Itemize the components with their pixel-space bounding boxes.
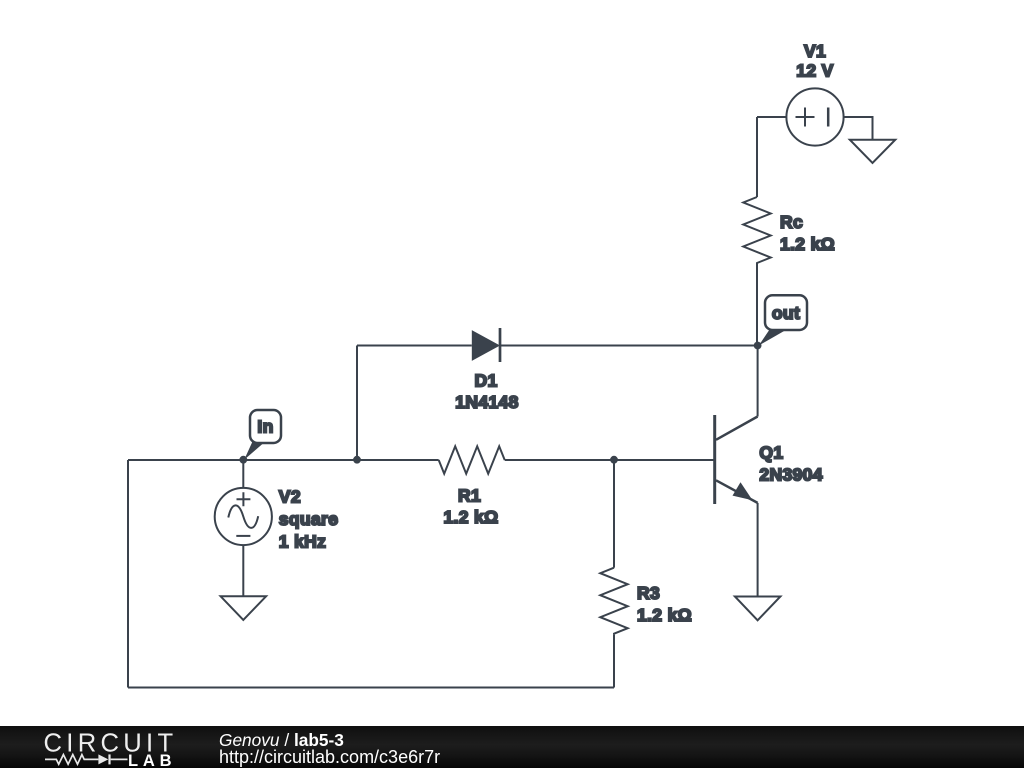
svg-text:2N3904: 2N3904 [759, 465, 822, 485]
resistor R1 [439, 446, 505, 473]
svg-text:D1: D1 [474, 371, 497, 391]
wire vertical from top row to In net [356, 346, 358, 461]
ground (Q1 emitter) [735, 597, 781, 621]
wire main horizontal row right of R1 (base net) [505, 459, 715, 461]
V1 labels [796, 41, 833, 81]
V2 labels [279, 487, 339, 552]
diode D1 [472, 328, 500, 362]
svg-text:In: In [257, 417, 273, 437]
wire emitter vertical [757, 503, 759, 597]
footer title text [219, 732, 440, 766]
wire diode row right segment [500, 345, 758, 347]
wire V2 top lead [242, 460, 244, 488]
node In label [244, 410, 281, 460]
node junction dot at R1/R3 [610, 456, 618, 464]
svg-text:1.2 kΩ: 1.2 kΩ [443, 507, 498, 527]
svg-text:1.2 kΩ: 1.2 kΩ [780, 234, 835, 254]
svg-text:1N4148: 1N4148 [455, 392, 518, 412]
wire Rc top lead [756, 117, 758, 197]
wire V1 right lead [844, 117, 873, 140]
wire collector vertical [757, 346, 759, 417]
transistor Q1 [715, 415, 758, 504]
svg-text:V1: V1 [804, 41, 826, 61]
footer bar [0, 726, 1024, 768]
resistor R3 [600, 568, 627, 635]
svg-text:V2: V2 [279, 487, 301, 507]
ground (V1) [850, 140, 896, 163]
wire main horizontal row left of R1 (node In net) [128, 459, 439, 461]
node junction dot at x357 [353, 456, 361, 464]
wire left rail [127, 460, 129, 688]
Q1 labels [759, 443, 822, 485]
svg-text:1 kHz: 1 kHz [279, 532, 326, 552]
svg-text:LAB: LAB [128, 752, 176, 768]
svg-text:out: out [772, 303, 800, 323]
svg-text:square: square [279, 509, 339, 529]
wire Rc bottom lead [756, 266, 758, 346]
node out label [759, 295, 807, 345]
svg-text:Q1: Q1 [759, 443, 783, 463]
R3 labels [637, 583, 692, 625]
wire bottom rail [128, 687, 614, 689]
Rc labels [780, 212, 835, 254]
wire diode row left segment [357, 345, 472, 347]
resistor Rc [743, 197, 770, 266]
wire V1 left lead [757, 116, 786, 118]
wire R3 top lead [613, 460, 615, 568]
wire R3 bottom lead [613, 635, 615, 688]
voltage source V2 [215, 488, 272, 545]
D1 labels [455, 371, 518, 413]
ground (V2) [221, 596, 267, 620]
svg-text:Rc: Rc [780, 212, 803, 232]
svg-text:R3: R3 [637, 583, 660, 603]
svg-text:R1: R1 [458, 486, 481, 506]
CircuitLab logo [0, 726, 220, 768]
wire V2 bottom lead [242, 545, 244, 596]
svg-text:12 V: 12 V [796, 61, 833, 81]
svg-text:1.2 kΩ: 1.2 kΩ [637, 605, 692, 625]
node out junction dot [754, 342, 762, 350]
node In junction dot [239, 456, 247, 464]
voltage source V1 [786, 88, 843, 145]
R1 labels [443, 486, 498, 528]
